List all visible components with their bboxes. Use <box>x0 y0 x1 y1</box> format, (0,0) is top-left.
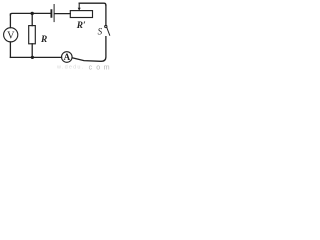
svg-text:A: A <box>64 52 71 62</box>
svg-text:R: R <box>40 35 47 45</box>
svg-text:w.dedu.: w.dedu. <box>56 65 84 70</box>
svg-text:c: c <box>89 64 93 70</box>
svg-text:S: S <box>98 27 103 37</box>
svg-text:R′: R′ <box>76 21 86 31</box>
svg-text:V: V <box>7 31 15 42</box>
svg-text:o: o <box>96 64 100 70</box>
svg-text:m: m <box>104 64 110 70</box>
